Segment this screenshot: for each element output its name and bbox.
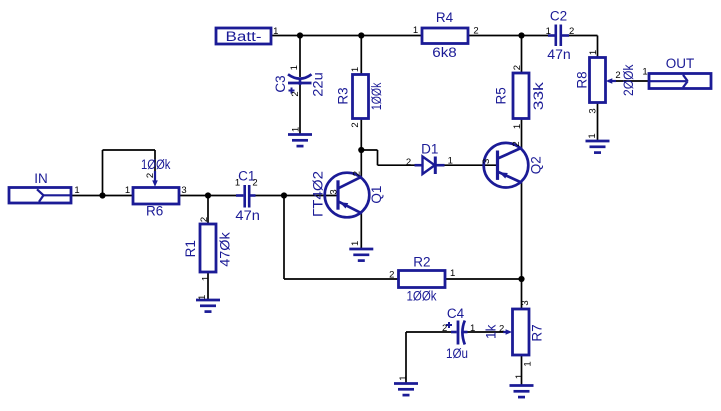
svg-text:1ØØk: 1ØØk <box>141 157 171 172</box>
svg-text:1: 1 <box>290 127 301 132</box>
svg-text:2: 2 <box>145 173 156 178</box>
svg-text:1: 1 <box>125 185 130 196</box>
svg-text:1: 1 <box>448 156 453 167</box>
svg-text:1k: 1k <box>483 324 498 339</box>
svg-text:2: 2 <box>511 141 522 146</box>
svg-text:47n: 47n <box>235 208 260 223</box>
svg-text:1: 1 <box>398 375 409 380</box>
svg-text:2ØØk: 2ØØk <box>621 64 636 96</box>
svg-text:2: 2 <box>350 122 361 127</box>
svg-text:R1: R1 <box>183 240 198 257</box>
svg-text:R5: R5 <box>494 87 509 104</box>
svg-text:1: 1 <box>588 50 599 55</box>
svg-text:2: 2 <box>199 217 210 222</box>
svg-text:1: 1 <box>546 26 551 37</box>
svg-text:R4: R4 <box>436 10 454 25</box>
svg-text:IN: IN <box>34 171 48 186</box>
svg-text:3: 3 <box>181 185 186 196</box>
svg-text:3: 3 <box>328 189 339 194</box>
svg-text:2: 2 <box>290 91 301 96</box>
svg-text:1: 1 <box>197 295 208 300</box>
svg-text:3: 3 <box>520 300 531 305</box>
svg-text:3: 3 <box>587 108 598 113</box>
svg-text:R8: R8 <box>574 71 589 88</box>
svg-text:3: 3 <box>481 159 492 164</box>
svg-text:2: 2 <box>499 323 504 334</box>
svg-text:1: 1 <box>587 133 598 138</box>
svg-text:1: 1 <box>522 361 533 366</box>
svg-text:1: 1 <box>235 177 240 188</box>
svg-text:1: 1 <box>74 185 79 196</box>
svg-text:D1: D1 <box>421 141 438 156</box>
svg-text:1: 1 <box>289 65 300 70</box>
svg-text:OUT: OUT <box>666 56 695 71</box>
svg-text:1Øu: 1Øu <box>446 346 468 361</box>
svg-text:2: 2 <box>352 171 363 176</box>
svg-text:2: 2 <box>569 26 574 37</box>
svg-text:1ØØk: 1ØØk <box>369 82 384 110</box>
svg-text:22u: 22u <box>310 72 325 97</box>
svg-text:1: 1 <box>470 323 475 334</box>
svg-text:C4: C4 <box>447 306 465 321</box>
svg-text:2: 2 <box>512 65 523 70</box>
svg-text:1: 1 <box>450 268 455 279</box>
svg-text:1: 1 <box>350 241 361 246</box>
svg-text:Q2: Q2 <box>528 156 543 174</box>
svg-text:1ØØk: 1ØØk <box>407 288 437 303</box>
svg-text:C2: C2 <box>550 8 567 23</box>
svg-text:1: 1 <box>273 26 278 37</box>
svg-text:1: 1 <box>514 374 525 379</box>
svg-text:R6: R6 <box>146 203 163 218</box>
svg-text:R7: R7 <box>529 324 544 341</box>
svg-text:2: 2 <box>615 70 620 81</box>
svg-text:Q1: Q1 <box>369 186 384 204</box>
svg-text:33k: 33k <box>531 82 546 110</box>
svg-text:C3: C3 <box>273 75 288 92</box>
svg-text:R2: R2 <box>413 255 430 270</box>
svg-text:Batt-: Batt- <box>226 29 262 44</box>
svg-text:ГТ4Ø2: ГТ4Ø2 <box>310 171 325 217</box>
svg-text:47n: 47n <box>547 47 571 62</box>
svg-text:1: 1 <box>413 25 418 36</box>
svg-text:2: 2 <box>252 177 257 188</box>
svg-text:2: 2 <box>406 157 411 168</box>
svg-text:2: 2 <box>389 270 394 281</box>
svg-text:R3: R3 <box>335 87 350 104</box>
svg-text:47Øk: 47Øk <box>217 232 232 267</box>
svg-text:2: 2 <box>473 25 478 36</box>
svg-text:6k8: 6k8 <box>432 45 457 60</box>
svg-text:1: 1 <box>512 124 523 129</box>
svg-text:2: 2 <box>442 323 447 334</box>
svg-text:1: 1 <box>200 276 211 281</box>
svg-text:1: 1 <box>642 66 647 77</box>
svg-text:1: 1 <box>350 67 361 72</box>
